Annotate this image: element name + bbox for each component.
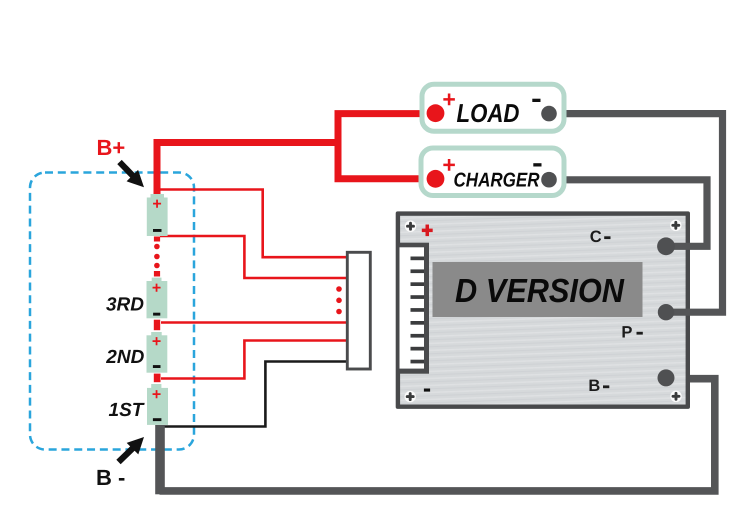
svg-text:2ND: 2ND <box>105 347 144 368</box>
series dots (omitted cells) <box>154 244 160 269</box>
svg-text:1ST: 1ST <box>109 400 145 421</box>
svg-text:B+: B+ <box>97 135 126 160</box>
board + mark <box>422 225 433 237</box>
screw top-right <box>670 220 681 231</box>
wire balance tap 1 (top cell +) <box>158 190 347 258</box>
svg-text:LOAD: LOAD <box>457 98 520 128</box>
LOAD terminal + <box>427 104 445 122</box>
arrow to B+ terminal <box>120 162 145 187</box>
label B+ <box>97 135 126 160</box>
screw top-left <box>405 221 416 232</box>
board label D VERSION <box>433 262 643 317</box>
svg-text:+: + <box>442 86 455 112</box>
svg-text:+: + <box>152 334 161 351</box>
inter-cell link stub <box>154 237 160 242</box>
svg-text:B: B <box>588 377 600 395</box>
label 3RD <box>106 295 144 316</box>
wire balance tap 5 (1ST cell -, black) <box>160 362 347 427</box>
CHARGER terminal + <box>427 170 445 188</box>
wire balance tap 4 (2ND cell -) <box>161 341 347 379</box>
cell 2ND <box>147 332 168 373</box>
battery pack outline (dashed) <box>30 173 194 450</box>
arrow to B- terminal <box>119 437 145 462</box>
cell 3RD <box>147 278 168 319</box>
terminal C- <box>657 237 675 255</box>
cell 1ST <box>147 384 168 425</box>
svg-text:B -: B - <box>96 465 125 490</box>
board - mark <box>424 389 430 392</box>
svg-text:+: + <box>442 151 455 177</box>
wire balance tap 2 (top cell -) <box>160 236 347 278</box>
label 1ST <box>109 400 145 421</box>
board label B- <box>588 377 609 395</box>
LOAD terminal - <box>541 106 557 122</box>
inter-cell link (2ND-1ST) <box>154 374 161 383</box>
svg-text:+: + <box>152 196 161 213</box>
svg-text:+: + <box>152 386 161 403</box>
svg-text:D VERSION: D VERSION <box>455 273 625 310</box>
BMS board <box>396 211 690 409</box>
LOAD box <box>422 84 564 131</box>
screw bottom-left <box>405 391 416 402</box>
balance plug connector <box>347 252 370 369</box>
board pin header comb <box>400 243 430 374</box>
cell top (B+ cell) <box>147 194 168 236</box>
board label P- <box>621 323 642 341</box>
wire balance tap 3 (3RD cell -) <box>161 321 347 324</box>
inter-cell link stub <box>154 271 160 277</box>
board label C- <box>590 228 611 246</box>
svg-text:+: + <box>152 280 161 297</box>
svg-text:CHARGER: CHARGER <box>454 170 540 192</box>
CHARGER box <box>421 148 564 196</box>
svg-text:P: P <box>621 323 632 341</box>
wire B+ thick red from battery to LOAD+ and CHARGER+ <box>157 114 436 198</box>
inter-cell link (3RD-2ND) <box>154 320 160 331</box>
terminal P- <box>658 304 674 320</box>
node dots (omitted taps) <box>336 286 342 314</box>
wire CHARGER- to C- (gray) <box>556 180 707 247</box>
wire LOAD- to P- (gray) <box>556 114 723 313</box>
svg-text:C: C <box>590 228 602 246</box>
screw bottom-right <box>670 391 681 402</box>
terminal B- <box>658 369 675 386</box>
label B- <box>96 465 125 490</box>
wire B- thick gray from battery to board B- <box>155 379 715 495</box>
CHARGER terminal - <box>541 172 557 188</box>
label 2ND <box>105 347 144 368</box>
svg-text:3RD: 3RD <box>106 295 144 316</box>
